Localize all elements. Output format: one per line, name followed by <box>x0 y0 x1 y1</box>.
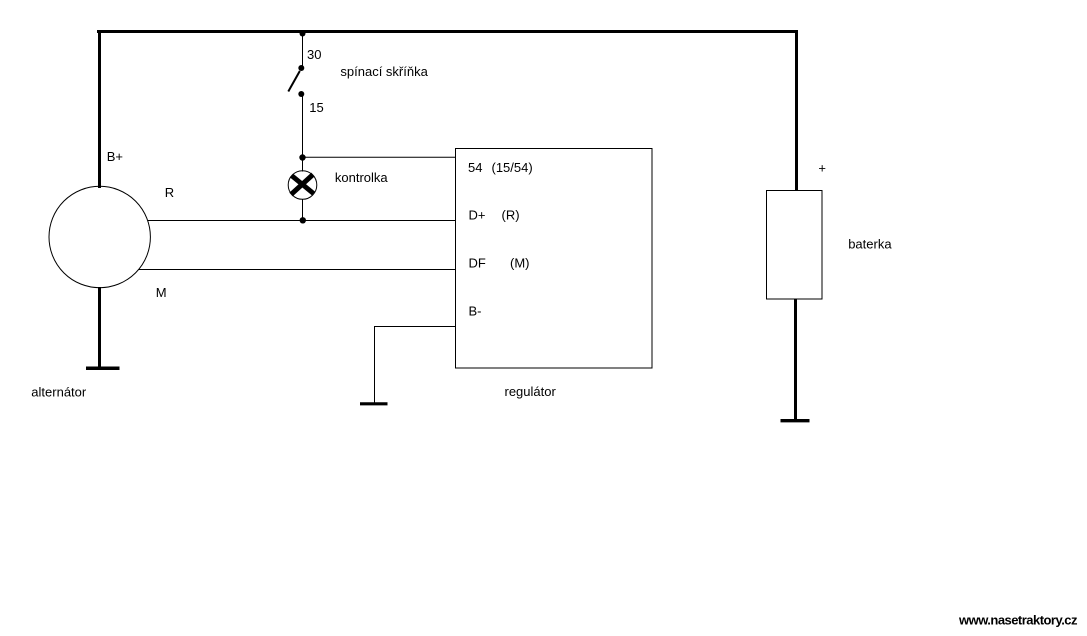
svg-text:regulátor: regulátor <box>505 384 557 399</box>
wire: terminal 30 drop from top bus to switch <box>302 33 304 68</box>
svg-text:alternátor: alternátor <box>31 385 87 400</box>
svg-text:(M): (M) <box>510 256 530 271</box>
svg-text:D+: D+ <box>469 208 486 223</box>
svg-text:(15/54): (15/54) <box>492 160 533 175</box>
node: junction of lamp lead on R wire <box>300 217 306 223</box>
svg-text:(R): (R) <box>502 208 520 223</box>
svg-text:spínací skříňka: spínací skříňka <box>340 64 428 79</box>
node: junction of switch drop on top bus <box>300 31 306 37</box>
wire: regulator B- horizontal run <box>374 326 456 328</box>
svg-text:R: R <box>165 185 174 200</box>
wire: battery positive lead from top bus <box>795 30 798 191</box>
svg-text:+: + <box>818 161 826 176</box>
alternator: machine body circle <box>49 186 150 287</box>
svg-text:M: M <box>156 285 167 300</box>
svg-text:DF: DF <box>469 256 486 271</box>
node: switch contact 15 <box>298 91 304 97</box>
wire: lamp node to regulator terminal 54 <box>303 156 456 158</box>
regulator: box outline <box>456 149 653 369</box>
svg-text:15: 15 <box>309 100 323 115</box>
svg-text:www.nasetraktory.cz: www.nasetraktory.cz <box>958 613 1078 628</box>
wire: lamp bottom to R wire junction <box>302 199 304 221</box>
ground: alternator earth bar <box>86 367 120 371</box>
svg-text:B-: B- <box>469 304 482 319</box>
wire: alternator R output to regulator D+ <box>148 220 456 222</box>
battery: baterka body <box>767 191 823 300</box>
svg-text:B+: B+ <box>107 149 123 164</box>
wire: lamp node down to lamp <box>302 158 304 172</box>
svg-text:30: 30 <box>307 47 321 62</box>
switch: spínací skříňka blade (open) <box>288 71 300 92</box>
wire: battery negative lead <box>794 299 797 422</box>
wire: alternator ground lead <box>98 287 101 370</box>
node: junction lamp top / wire to regulator 54 <box>299 154 305 160</box>
wire: alternator B+ vertical lead <box>98 30 101 188</box>
ground: regulator earth bar <box>360 402 388 405</box>
wire: top bus from alternator B+ to battery + <box>97 30 798 33</box>
svg-text:54: 54 <box>468 160 482 175</box>
ground: battery earth bar <box>781 419 810 422</box>
svg-text:kontrolka: kontrolka <box>335 170 389 185</box>
svg-text:baterka: baterka <box>848 237 892 252</box>
wire: regulator B- drop to ground <box>374 327 376 403</box>
node: switch contact 30 <box>298 65 304 71</box>
wire: alternator M output to regulator DF <box>139 269 456 271</box>
lamp: kontrolka indicator bulb with X filament <box>288 171 317 200</box>
wire: terminal 15 down to lamp node <box>302 94 304 158</box>
